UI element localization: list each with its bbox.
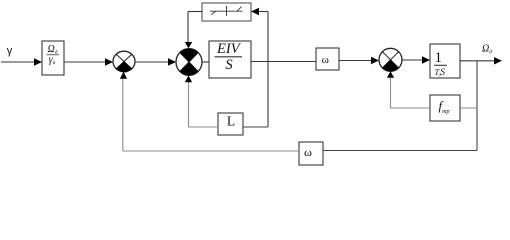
wire S3 to block G2 bbox=[402, 59, 423, 61]
wire fcp output to S3 bottom bbox=[391, 107, 431, 109]
wire EIV/S output to omega block W1 bbox=[251, 61, 316, 63]
svg-text:γ: γ bbox=[7, 45, 13, 57]
block G2 1/TS bbox=[430, 44, 460, 78]
wire fcp right stub bbox=[460, 107, 477, 109]
wire L output to S2 bottom bbox=[189, 126, 219, 128]
svg-text:ω: ω bbox=[322, 54, 329, 66]
wire input gamma to block G1 bbox=[1, 61, 35, 63]
wire S1 to sum S2 bbox=[135, 61, 169, 63]
svg-text:S: S bbox=[225, 57, 233, 73]
block G4 L bbox=[218, 113, 243, 135]
wire bottom feedback left segment to S1 bottom bbox=[123, 150, 299, 152]
block G3 f_cp bbox=[430, 95, 460, 121]
wire output branch down to bottom feedback bbox=[476, 61, 478, 151]
wire limiter output to S2 top bbox=[188, 11, 202, 13]
wire W1 to sum S3 bbox=[339, 60, 372, 62]
svg-text:EIV: EIV bbox=[216, 41, 242, 57]
block U1 integrator EIV/S bbox=[209, 41, 251, 78]
block G1 Omega_d/gamma_n bbox=[42, 41, 64, 75]
summing junction S1 (bottom quadrant filled) bbox=[113, 51, 135, 72]
block N1 saturation limiter bbox=[202, 3, 251, 21]
wire bottom feedback right segment bbox=[323, 150, 477, 152]
wire L input from branch vertical bbox=[243, 126, 268, 128]
block W2 omega bottom bbox=[299, 142, 323, 165]
wire G1 to sum S1 bbox=[64, 61, 106, 63]
wire branch vertical from EIV/S output to limiter input and L input bbox=[267, 12, 269, 128]
wire S2 to integrator U1 bbox=[202, 61, 209, 63]
svg-text:L: L bbox=[227, 114, 235, 129]
svg-text:ω: ω bbox=[304, 145, 312, 159]
summing junction S2 (top and bottom quadrants filled) bbox=[176, 49, 202, 76]
svg-text:1: 1 bbox=[434, 50, 442, 66]
svg-text:TдS: TдS bbox=[435, 67, 446, 78]
block W1 omega bbox=[316, 48, 339, 70]
summing junction S3 (bottom quadrant filled) bbox=[379, 48, 402, 71]
wire G2 output with arrow bbox=[460, 60, 495, 62]
